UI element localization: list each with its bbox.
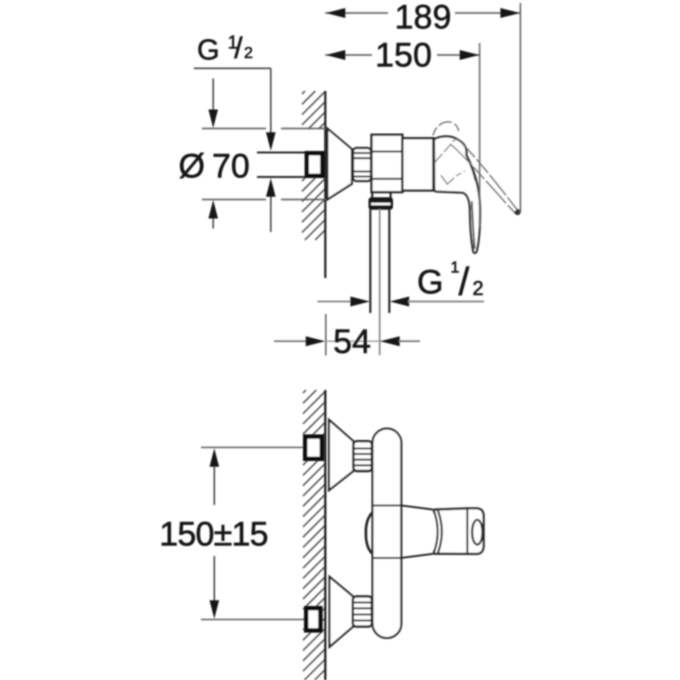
ghost hub arc (open position) [433, 122, 459, 136]
ghost hub chord [435, 137, 457, 162]
dim 54 [325, 314, 327, 356]
svg-text:G: G [417, 263, 443, 301]
dim 150 extension line right [479, 43, 481, 227]
wall face line (front view) [324, 390, 326, 680]
dim G 1/2 bottom [318, 301, 353, 303]
svg-text:70: 70 [212, 148, 250, 186]
handle base cone bottom line (front view) [373, 554, 433, 558]
ghost lever heel mark [441, 175, 454, 184]
upper union square (front view) [305, 437, 322, 459]
dim 189 [325, 12, 520, 14]
wall hatching (front view) [303, 390, 325, 680]
body dome edge arc (front view) [366, 513, 373, 554]
lever inner contour 2 [467, 157, 475, 181]
wall face line (side view) [324, 91, 326, 278]
ghost lever tip [515, 210, 520, 215]
shower hose pipe (side view) [370, 209, 389, 313]
grip left end arc outer [434, 510, 438, 554]
handle grip (front view) [434, 508, 484, 554]
wall hatching upper band (side view) [302, 91, 325, 129]
dim O70 extension lines [202, 129, 326, 200]
escutcheon cone (side view) [327, 129, 352, 200]
grip end boss ellipse [472, 520, 482, 545]
svg-text:Ø: Ø [179, 148, 205, 186]
cap ring line [432, 138, 434, 190]
G1/2 top leader line + arrows [270, 68, 272, 134]
dim O70 arrows [212, 79, 214, 113]
ghost lever lower edge [451, 144, 515, 213]
svg-text:150±15: 150±15 [159, 516, 267, 554]
svg-text:/: / [459, 261, 470, 304]
svg-text:150: 150 [375, 37, 432, 75]
mixer body main cylinder (side view) [402, 138, 433, 190]
svg-text:54: 54 [333, 323, 371, 361]
grip right collar line [466, 509, 468, 554]
lower union square (front view) [306, 608, 320, 630]
hex nut (side view) [353, 148, 371, 181]
upper hex nut (front view) [353, 441, 372, 471]
ghost heel dash extension [456, 171, 465, 176]
svg-text:2: 2 [473, 278, 484, 300]
dim 189 extension line right [519, 3, 521, 213]
lower hex nut (front view) [353, 596, 372, 626]
svg-text:/: / [234, 32, 243, 65]
lower escutcheon (front view) [330, 577, 354, 647]
lever inner contour [472, 201, 475, 249]
wall union square (side view) [307, 153, 323, 176]
hose centre line / 54 extension [379, 209, 381, 355]
dim 150+-15 arrows [213, 465, 215, 505]
svg-text:2: 2 [244, 45, 253, 62]
mixer body capsule (front view) [373, 429, 402, 638]
outlet tailpiece (side view) [372, 192, 390, 198]
wall hatching lower band (side view) [302, 178, 325, 240]
handle base cone top line (front view) [373, 505, 433, 509]
svg-text:189: 189 [395, 0, 452, 36]
ghost lever upper edge [457, 139, 517, 210]
lever handle (side view, closed) [434, 136, 480, 253]
supply pipe in wall (side view) [257, 153, 305, 178]
grip left end arc inner [438, 510, 442, 553]
svg-text:G: G [197, 35, 220, 67]
dim 150 [325, 54, 479, 56]
hose connection nut (side view) [370, 199, 392, 209]
dim 150+-15 extension lines [201, 447, 304, 619]
upper escutcheon (front view) [329, 420, 353, 490]
valve body left section (side view) [372, 135, 403, 192]
